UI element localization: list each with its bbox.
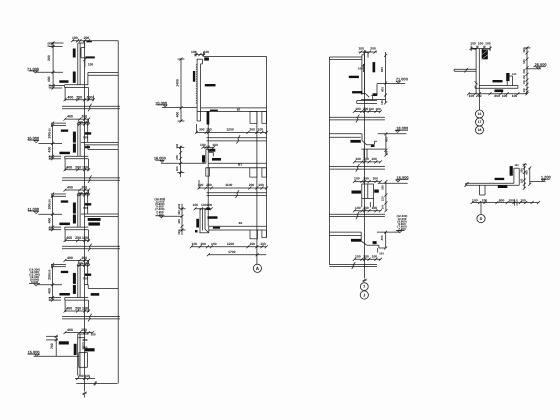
svg-text:800: 800 xyxy=(494,94,500,98)
svg-text:700: 700 xyxy=(50,343,54,349)
svg-text:400: 400 xyxy=(66,307,72,311)
svg-text:400: 400 xyxy=(384,137,388,142)
svg-text:26.000: 26.000 xyxy=(535,62,547,67)
svg-text:100: 100 xyxy=(175,143,179,148)
floor detail column2 module2 xyxy=(154,143,268,189)
wall section detail column1 module4 xyxy=(29,256,118,313)
svg-text:100: 100 xyxy=(470,41,476,45)
svg-text:1700: 1700 xyxy=(228,250,236,254)
svg-text:100: 100 xyxy=(82,165,88,169)
floor line pair 3 column 3 xyxy=(330,212,385,220)
svg-text:100: 100 xyxy=(372,206,378,210)
svg-text:500: 500 xyxy=(523,59,526,64)
left dimension chain xyxy=(52,265,54,300)
floor detail column3 module3 xyxy=(352,175,409,212)
grid line axis column 1 xyxy=(83,41,87,398)
svg-text:100: 100 xyxy=(87,95,93,99)
floor slab left xyxy=(65,226,89,228)
svg-text:400: 400 xyxy=(526,170,529,175)
svg-text:100: 100 xyxy=(85,374,91,378)
wall double line xyxy=(77,194,79,228)
svg-text:100: 100 xyxy=(82,236,88,240)
building edge column 3 xyxy=(329,57,331,265)
svg-text:150: 150 xyxy=(381,196,385,201)
svg-text:400: 400 xyxy=(47,218,51,224)
svg-text:400: 400 xyxy=(380,87,384,92)
svg-text:400: 400 xyxy=(176,112,180,118)
svg-text:400: 400 xyxy=(67,115,73,119)
parapet gutter detail column4 top xyxy=(454,41,546,98)
svg-text:300: 300 xyxy=(523,48,526,53)
svg-text:100: 100 xyxy=(520,178,523,183)
wall section detail column1 module2 xyxy=(27,115,118,172)
svg-text:100: 100 xyxy=(372,255,378,259)
svg-text:200: 200 xyxy=(75,307,81,311)
svg-text:200: 200 xyxy=(47,133,51,139)
svg-text:400: 400 xyxy=(66,236,72,240)
svg-text:200: 200 xyxy=(82,338,87,342)
axis bubble A xyxy=(253,264,261,272)
svg-text:100: 100 xyxy=(382,204,385,209)
svg-text:1400: 1400 xyxy=(176,79,180,87)
axis line to bubble column4 bottom xyxy=(480,203,482,215)
svg-text:200: 200 xyxy=(75,165,81,169)
svg-text:400: 400 xyxy=(47,288,51,294)
svg-text:100: 100 xyxy=(200,143,206,147)
svg-text:200: 200 xyxy=(476,94,482,98)
svg-text:100: 100 xyxy=(508,198,514,202)
bottom dimension 400 200 100 xyxy=(65,240,89,242)
svg-text:150: 150 xyxy=(206,128,212,132)
floor line pair 1 column 2 xyxy=(207,135,267,143)
floor slab line pair 1 column 1 xyxy=(62,104,120,112)
svg-text:100: 100 xyxy=(358,46,364,50)
rebar labels xyxy=(61,130,68,132)
svg-text:300: 300 xyxy=(199,128,205,132)
svg-text:16: 16 xyxy=(478,112,482,116)
svg-text:100: 100 xyxy=(472,198,478,202)
floor slab line pair 2 column 1 xyxy=(62,175,120,183)
svg-text:D: D xyxy=(480,217,483,221)
svg-text:150: 150 xyxy=(523,74,526,79)
wall section detail column1 module1 xyxy=(27,36,118,101)
bottom boundary line column 1 xyxy=(76,381,117,385)
svg-text:300: 300 xyxy=(520,168,523,173)
wall section detail column1 module5 base xyxy=(28,328,96,380)
svg-text:100: 100 xyxy=(520,198,526,202)
wall double line xyxy=(77,264,79,298)
svg-text:1100: 1100 xyxy=(225,183,232,187)
svg-text:200: 200 xyxy=(249,183,255,187)
svg-text:1.200: 1.200 xyxy=(541,174,551,179)
svg-text:200: 200 xyxy=(482,198,488,202)
svg-text:100: 100 xyxy=(371,157,377,161)
svg-text:100: 100 xyxy=(358,67,363,71)
svg-text:700: 700 xyxy=(83,206,88,210)
svg-text:1200: 1200 xyxy=(226,128,234,132)
svg-text:100: 100 xyxy=(207,203,213,207)
svg-text:200: 200 xyxy=(523,68,526,73)
svg-text:800: 800 xyxy=(499,198,505,202)
svg-text:100: 100 xyxy=(48,226,51,231)
svg-text:100: 100 xyxy=(72,36,78,40)
svg-text:100: 100 xyxy=(212,143,218,147)
svg-text:100: 100 xyxy=(82,307,88,311)
svg-text:100: 100 xyxy=(88,63,94,67)
left dimension chain xyxy=(52,195,54,230)
svg-text:200: 200 xyxy=(250,242,256,246)
svg-text:400: 400 xyxy=(380,235,384,240)
svg-text:100: 100 xyxy=(47,269,51,274)
floor slab right xyxy=(81,141,118,143)
svg-text:18: 18 xyxy=(478,128,482,132)
svg-text:150: 150 xyxy=(512,73,517,76)
floor detail column3 module4 xyxy=(330,214,408,261)
svg-text:400: 400 xyxy=(66,165,72,169)
wall double line xyxy=(77,123,79,157)
svg-text:100: 100 xyxy=(355,107,361,111)
svg-text:350: 350 xyxy=(381,185,385,190)
svg-text:200: 200 xyxy=(84,36,90,40)
canopy detail column4 bottom xyxy=(465,164,551,206)
svg-text:200: 200 xyxy=(370,46,376,50)
building edge column 2 xyxy=(266,56,268,237)
svg-text:200: 200 xyxy=(81,186,87,190)
svg-text:200: 200 xyxy=(47,55,51,61)
svg-text:400: 400 xyxy=(67,256,73,260)
svg-text:100: 100 xyxy=(48,296,51,301)
floor detail column3 module2 xyxy=(330,126,409,164)
svg-text:100: 100 xyxy=(380,100,384,105)
svg-text:800: 800 xyxy=(380,67,384,72)
wall section detail column1 module3 xyxy=(27,186,118,243)
svg-text:200: 200 xyxy=(175,155,179,160)
svg-text:100: 100 xyxy=(91,332,96,336)
axis line to bubbles column4 top xyxy=(479,94,481,110)
floor slab left xyxy=(65,297,89,299)
axis bubble stack column4 top xyxy=(476,110,484,134)
svg-text:400: 400 xyxy=(67,328,73,332)
floor line pair 1 column 3 xyxy=(330,115,385,123)
svg-text:400: 400 xyxy=(47,76,51,82)
svg-text:200: 200 xyxy=(249,128,255,132)
svg-text:100: 100 xyxy=(47,199,51,204)
bottom boundary line column 3 xyxy=(330,262,378,269)
svg-text:100: 100 xyxy=(177,230,181,235)
svg-text:100: 100 xyxy=(523,88,526,93)
floor line pair 2 column 2 xyxy=(207,190,267,198)
svg-text:200: 200 xyxy=(47,204,51,210)
floor slab left xyxy=(65,155,89,157)
svg-text:100: 100 xyxy=(48,83,51,88)
floor slab line pair 4 column 1 xyxy=(62,314,120,322)
svg-text:100: 100 xyxy=(523,79,526,84)
roof parapet detail column2 module1 xyxy=(155,50,268,134)
svg-text:100: 100 xyxy=(258,183,264,187)
svg-text:150: 150 xyxy=(514,164,519,167)
svg-text:J: J xyxy=(363,292,365,297)
svg-text:700: 700 xyxy=(83,135,88,139)
svg-text:71.000: 71.000 xyxy=(396,77,408,82)
svg-text:100: 100 xyxy=(469,94,475,98)
svg-text:100: 100 xyxy=(193,203,199,207)
svg-text:400: 400 xyxy=(175,166,179,171)
svg-text:100: 100 xyxy=(354,177,360,181)
rebar labels xyxy=(61,200,68,202)
rebar labels xyxy=(61,271,68,273)
svg-text:400: 400 xyxy=(67,95,73,99)
building edge column 1 xyxy=(117,41,119,384)
floor slab right xyxy=(81,213,118,215)
svg-text:100: 100 xyxy=(47,128,51,133)
svg-text:17: 17 xyxy=(478,120,482,124)
svg-text:100: 100 xyxy=(48,155,51,160)
svg-text:300: 300 xyxy=(177,219,181,224)
extension line column 2 joist xyxy=(207,111,209,226)
svg-text:100: 100 xyxy=(177,203,181,208)
axis bubble column4 bottom xyxy=(477,215,485,223)
svg-text:200: 200 xyxy=(75,236,81,240)
floor line pair 2 column 3 xyxy=(330,164,385,172)
grid line axis column 3 xyxy=(363,50,367,282)
floor slab line pair 3 column 1 xyxy=(62,244,120,252)
left dimension chain xyxy=(52,124,54,159)
svg-text:200: 200 xyxy=(78,374,84,378)
svg-text:B1: B1 xyxy=(239,221,243,225)
bottom dimension 400 200 100 xyxy=(65,310,89,312)
floor detail column2 module3 xyxy=(155,197,268,256)
floor slab right xyxy=(85,284,89,286)
svg-text:200: 200 xyxy=(81,115,87,119)
axis bubbles column 3 xyxy=(360,283,368,299)
svg-text:300: 300 xyxy=(177,210,181,215)
svg-text:B1: B1 xyxy=(237,108,241,112)
svg-text:100: 100 xyxy=(379,251,384,255)
svg-text:400: 400 xyxy=(67,186,73,190)
svg-text:100: 100 xyxy=(502,94,508,98)
svg-text:200: 200 xyxy=(47,274,51,280)
svg-text:100: 100 xyxy=(512,94,518,98)
svg-text:200: 200 xyxy=(76,95,82,99)
svg-text:200: 200 xyxy=(206,183,212,187)
roof parapet detail column3 module1 xyxy=(330,46,408,113)
bottom dimension 400 200 100 xyxy=(65,169,89,171)
svg-text:100: 100 xyxy=(211,242,217,246)
svg-text:200: 200 xyxy=(81,256,87,260)
grid line axis A column 2 xyxy=(256,111,258,264)
svg-text:150: 150 xyxy=(50,42,53,47)
svg-text:100: 100 xyxy=(485,41,491,45)
svg-text:700: 700 xyxy=(83,277,88,281)
svg-text:1200: 1200 xyxy=(227,242,235,246)
svg-text:400: 400 xyxy=(47,147,51,153)
svg-text:150: 150 xyxy=(384,150,388,155)
svg-text:B1: B1 xyxy=(238,162,242,166)
